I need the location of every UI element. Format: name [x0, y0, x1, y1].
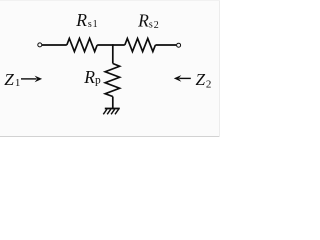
label Z1	[4, 70, 20, 89]
wire: left terminal to Rs1	[42, 44, 67, 46]
svg-text:2: 2	[154, 20, 159, 31]
resistor Rs1	[67, 39, 97, 52]
svg-text:p: p	[95, 75, 101, 87]
label Z2	[196, 70, 212, 91]
arrow: Z2 looking into network (points left)	[174, 75, 191, 82]
svg-text:R: R	[83, 67, 95, 87]
svg-text:Z: Z	[4, 70, 14, 89]
resistor Rs2	[125, 39, 156, 52]
svg-text:R: R	[75, 10, 87, 30]
wire: Rs1 to Rs2 (top node)	[97, 44, 125, 46]
wire: top node junction down to Rp	[112, 44, 114, 63]
arrow: Z1 looking into network (points right)	[21, 76, 42, 83]
svg-text:R: R	[137, 11, 149, 31]
terminal: left port	[38, 43, 42, 47]
label Rs1	[75, 10, 97, 30]
svg-text:s: s	[88, 19, 92, 30]
svg-text:Z: Z	[196, 70, 206, 89]
svg-text:1: 1	[15, 77, 21, 89]
wire: Rp to ground	[112, 97, 114, 109]
terminal: right port	[177, 43, 181, 47]
label Rs2	[137, 11, 159, 31]
resistor Rp	[105, 64, 119, 97]
svg-text:s: s	[149, 20, 153, 31]
svg-text:1: 1	[93, 19, 98, 30]
svg-text:2: 2	[206, 79, 212, 91]
ground	[103, 109, 120, 115]
wire: Rs2 to right terminal	[155, 44, 176, 46]
label Rp	[83, 67, 101, 87]
